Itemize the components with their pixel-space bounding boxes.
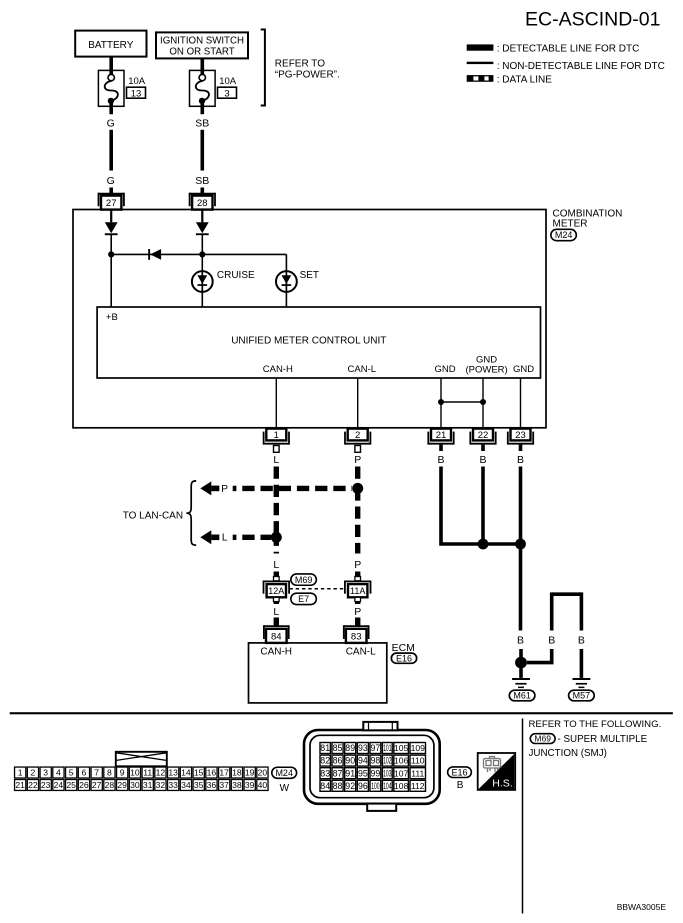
svg-text:97: 97 xyxy=(371,743,381,753)
svg-text:102: 102 xyxy=(383,756,391,766)
svg-text:E7: E7 xyxy=(298,594,309,604)
svg-text:13: 13 xyxy=(168,768,178,778)
svg-text:CAN-H: CAN-H xyxy=(260,646,292,657)
svg-text:B: B xyxy=(457,780,464,791)
svg-text:BATTERY: BATTERY xyxy=(88,40,134,51)
svg-text:B: B xyxy=(517,635,524,647)
svg-text:37: 37 xyxy=(219,780,229,790)
svg-text:39: 39 xyxy=(245,780,255,790)
svg-text:108: 108 xyxy=(394,781,409,791)
svg-text:CAN-L: CAN-L xyxy=(348,364,377,375)
svg-text:6: 6 xyxy=(82,768,87,778)
svg-text:112: 112 xyxy=(411,781,425,791)
svg-text:106: 106 xyxy=(394,756,409,766)
svg-text:: DETECTABLE LINE FOR DTC: : DETECTABLE LINE FOR DTC xyxy=(497,44,640,55)
svg-text:B: B xyxy=(437,454,444,466)
svg-text:IGNITION SWITCH: IGNITION SWITCH xyxy=(160,36,244,47)
svg-text:JUNCTION (SMJ): JUNCTION (SMJ) xyxy=(529,748,607,759)
svg-text:21: 21 xyxy=(15,780,25,790)
svg-text:P: P xyxy=(354,559,361,571)
svg-text:CAN-L: CAN-L xyxy=(346,646,376,657)
svg-text:93: 93 xyxy=(358,743,368,753)
svg-text:34: 34 xyxy=(181,780,191,790)
svg-text:83: 83 xyxy=(320,768,330,778)
svg-text:96: 96 xyxy=(358,781,368,791)
svg-text:M24: M24 xyxy=(555,230,573,240)
svg-text:10A: 10A xyxy=(128,76,146,87)
svg-text:SB: SB xyxy=(195,175,209,187)
svg-text:+B: +B xyxy=(106,312,118,323)
svg-text:W: W xyxy=(280,783,290,794)
svg-text:105: 105 xyxy=(394,743,409,753)
svg-text:CRUISE: CRUISE xyxy=(217,270,255,281)
svg-text:H.S.: H.S. xyxy=(492,777,512,789)
svg-text:24: 24 xyxy=(54,780,64,790)
svg-text:94: 94 xyxy=(358,756,368,766)
svg-text:11: 11 xyxy=(143,768,152,778)
svg-text:E16: E16 xyxy=(451,767,467,777)
svg-text:3: 3 xyxy=(43,768,48,778)
svg-text:L: L xyxy=(273,454,279,466)
svg-text:M57: M57 xyxy=(573,691,591,701)
svg-text:GND: GND xyxy=(434,364,455,375)
svg-text:EC-ASCIND-01: EC-ASCIND-01 xyxy=(525,9,660,31)
svg-text:3: 3 xyxy=(224,88,229,99)
svg-text:27: 27 xyxy=(92,780,102,790)
svg-text:M24: M24 xyxy=(275,768,293,778)
svg-text:15: 15 xyxy=(194,768,204,778)
svg-text:12A: 12A xyxy=(268,586,284,596)
svg-text:ECM: ECM xyxy=(392,642,415,654)
svg-text:28: 28 xyxy=(105,780,115,790)
svg-text:GND: GND xyxy=(513,364,534,375)
svg-text:111: 111 xyxy=(411,768,424,778)
svg-text:ON OR START: ON OR START xyxy=(169,47,234,58)
svg-text:M61: M61 xyxy=(513,691,531,701)
svg-text:83: 83 xyxy=(351,632,362,643)
svg-text:2: 2 xyxy=(355,430,360,441)
svg-text:98: 98 xyxy=(371,756,381,766)
svg-text:: DATA LINE: : DATA LINE xyxy=(497,74,553,85)
svg-text:85: 85 xyxy=(333,743,343,753)
svg-text:14: 14 xyxy=(181,768,191,778)
svg-text:11A: 11A xyxy=(350,586,365,596)
svg-text:22: 22 xyxy=(28,780,38,790)
svg-text:7: 7 xyxy=(94,768,99,778)
svg-text:33: 33 xyxy=(168,780,178,790)
svg-text:86: 86 xyxy=(333,756,343,766)
svg-text:5: 5 xyxy=(69,768,74,778)
svg-text:28: 28 xyxy=(197,198,208,209)
svg-text:22: 22 xyxy=(478,430,489,441)
svg-text:10A: 10A xyxy=(219,76,237,87)
svg-text:L: L xyxy=(222,533,228,544)
svg-text:9: 9 xyxy=(120,768,125,778)
svg-text:2: 2 xyxy=(31,768,36,778)
svg-text:20: 20 xyxy=(258,768,268,778)
svg-text:95: 95 xyxy=(358,768,368,778)
svg-text:25: 25 xyxy=(66,780,76,790)
svg-text:B: B xyxy=(578,635,585,647)
svg-text:METER: METER xyxy=(553,218,588,229)
svg-text:35: 35 xyxy=(194,780,204,790)
svg-text:31: 31 xyxy=(143,780,153,790)
svg-text:17: 17 xyxy=(219,768,229,778)
svg-text:110: 110 xyxy=(411,756,425,766)
svg-text:B: B xyxy=(479,454,486,466)
svg-text:M69: M69 xyxy=(534,734,551,744)
svg-text:101: 101 xyxy=(383,743,391,753)
svg-text:P: P xyxy=(354,454,361,466)
svg-text:1: 1 xyxy=(274,430,279,441)
svg-text:36: 36 xyxy=(207,780,217,790)
svg-text:E16: E16 xyxy=(396,653,412,663)
svg-text:84: 84 xyxy=(271,632,282,643)
svg-text:18: 18 xyxy=(232,768,242,778)
svg-text:P: P xyxy=(221,484,228,495)
svg-text:107: 107 xyxy=(394,768,409,778)
svg-text:REFER TO: REFER TO xyxy=(275,59,325,70)
svg-text:100: 100 xyxy=(371,781,379,791)
svg-text:89: 89 xyxy=(345,743,355,753)
svg-text:P: P xyxy=(354,606,361,618)
svg-text:38: 38 xyxy=(232,780,242,790)
svg-text:12: 12 xyxy=(156,768,166,778)
svg-text:23: 23 xyxy=(515,430,526,441)
svg-text:92: 92 xyxy=(345,781,355,791)
svg-text:4: 4 xyxy=(56,768,61,778)
svg-text:B: B xyxy=(517,454,524,466)
svg-text:TO LAN-CAN: TO LAN-CAN xyxy=(123,511,183,522)
svg-text:81: 81 xyxy=(320,743,330,753)
svg-text:87: 87 xyxy=(333,768,343,778)
svg-text:90: 90 xyxy=(345,756,355,766)
svg-text:104: 104 xyxy=(383,781,391,791)
svg-text:26: 26 xyxy=(79,780,89,790)
svg-text:21: 21 xyxy=(436,430,447,441)
svg-text:32: 32 xyxy=(156,780,166,790)
svg-text:23: 23 xyxy=(41,780,51,790)
svg-text:SB: SB xyxy=(195,118,209,130)
svg-text:CAN-H: CAN-H xyxy=(263,364,293,375)
svg-text:84: 84 xyxy=(320,781,330,791)
svg-text:82: 82 xyxy=(320,756,330,766)
svg-text:88: 88 xyxy=(333,781,343,791)
svg-text:“PG-POWER”.: “PG-POWER”. xyxy=(275,70,340,81)
svg-text:L: L xyxy=(273,606,279,618)
svg-text:8: 8 xyxy=(107,768,112,778)
svg-text:103: 103 xyxy=(383,768,391,778)
svg-text:99: 99 xyxy=(371,768,381,778)
svg-text:G: G xyxy=(107,175,115,187)
svg-text:UNIFIED METER CONTROL UNIT: UNIFIED METER CONTROL UNIT xyxy=(231,335,386,346)
svg-text:10: 10 xyxy=(130,768,140,778)
svg-text:L: L xyxy=(273,559,279,571)
svg-text:109: 109 xyxy=(411,743,426,753)
svg-text:: NON-DETECTABLE LINE FOR DTC: : NON-DETECTABLE LINE FOR DTC xyxy=(497,61,665,72)
svg-text:- SUPER MULTIPLE: - SUPER MULTIPLE xyxy=(558,734,648,745)
svg-text:91: 91 xyxy=(345,768,355,778)
svg-text:B: B xyxy=(548,635,555,647)
svg-text:29: 29 xyxy=(117,780,127,790)
svg-text:M69: M69 xyxy=(295,575,313,585)
svg-text:SET: SET xyxy=(300,270,319,281)
svg-text:30: 30 xyxy=(130,780,140,790)
svg-text:1: 1 xyxy=(18,768,23,778)
svg-text:16: 16 xyxy=(207,768,217,778)
svg-text:27: 27 xyxy=(106,198,117,209)
svg-text:G: G xyxy=(107,118,115,130)
svg-text:40: 40 xyxy=(258,780,268,790)
svg-text:BBWA3005E: BBWA3005E xyxy=(617,902,667,912)
svg-text:REFER TO THE FOLLOWING.: REFER TO THE FOLLOWING. xyxy=(529,719,662,730)
svg-text:19: 19 xyxy=(245,768,255,778)
svg-text:(POWER): (POWER) xyxy=(465,364,507,375)
svg-text:13: 13 xyxy=(131,88,142,99)
